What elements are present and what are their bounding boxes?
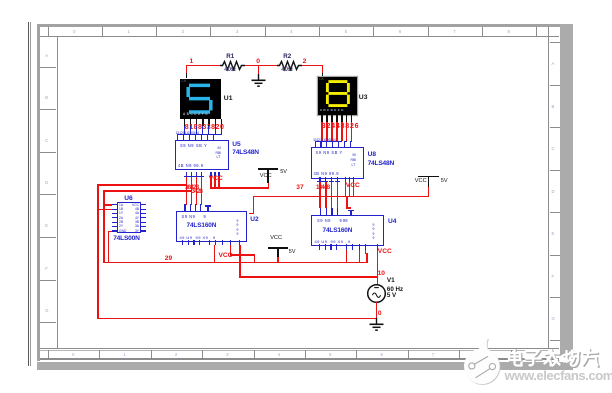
pin U2 top (200, 204, 201, 211)
wire U5 RBI drop (214, 176, 215, 188)
wire jog U5-U2 (200, 204, 202, 205)
pin U5 aux (218, 172, 219, 177)
pin U2 top (190, 204, 191, 211)
wire jog to U4 pin9 (346, 207, 351, 208)
pin U1 seg1 (184, 119, 186, 127)
power VCC symbol right (418, 176, 439, 178)
U2 top internal labels A-D (182, 214, 196, 219)
net label 2 (303, 58, 307, 65)
pin U3 top stub (322, 73, 323, 77)
label U5 (232, 141, 240, 148)
wire U8 aux drop (353, 182, 355, 196)
label R1 (226, 53, 234, 60)
pin U5 out2 (191, 172, 192, 177)
wire U5 LT drop (210, 176, 211, 188)
pin U6 left5 (112, 222, 117, 223)
pin U4 bottom (336, 244, 337, 249)
pin U6 right6 (141, 226, 146, 227)
wire U1 top drop red (186, 65, 188, 74)
pin U2 top (195, 204, 196, 211)
net label VCC red at U4 (378, 248, 392, 255)
U4 top internal labels (317, 218, 331, 223)
pin U8 out (331, 177, 332, 182)
text 5V right (441, 178, 448, 184)
net numbers under U5 row1 (185, 184, 198, 191)
net numbers under U5 row2 (192, 188, 203, 195)
value 5 V (387, 292, 396, 299)
pin U4 bottom (365, 244, 366, 249)
pin U5 aux (214, 172, 215, 177)
wire U2 VCCpin to bus (214, 245, 216, 263)
wires U3 to U8 (321, 122, 323, 142)
watermark logo circle (460, 332, 612, 393)
wire U4 CLK to V1 (377, 250, 379, 285)
wire clock bus net10 (239, 276, 378, 278)
U2 top internal label CLR (204, 214, 206, 219)
U5 label LT (217, 155, 221, 159)
text 5V middle (289, 249, 296, 255)
net label 29 (165, 255, 172, 262)
pin U2 bottom (215, 240, 216, 245)
label U2 (250, 216, 258, 223)
pin U5 out1 (186, 172, 187, 177)
net label 1 (190, 58, 194, 65)
wire jog U5-U2 (190, 204, 193, 205)
label U4 (388, 218, 396, 225)
pin U8 aux (345, 177, 346, 182)
wire U4 pin jog drop (365, 250, 367, 255)
pin U2 bottom (239, 240, 240, 245)
net label 10 (378, 270, 385, 277)
pin U4 bottom (352, 244, 353, 249)
pin U6 left6 (112, 226, 117, 227)
U8 bottom internal labels (314, 171, 339, 176)
pin U2 bottom (209, 240, 210, 245)
pin U5 out4 (201, 172, 202, 177)
wire U3 top drop red (322, 65, 324, 74)
U8 top internal labels (316, 150, 343, 155)
wire net0 left of ground (243, 65, 279, 67)
IC U6 74LS00N (117, 202, 141, 233)
wire U2 pin drop (230, 245, 232, 255)
wire U2 RCO stub (249, 213, 255, 215)
U8 label LT (352, 163, 356, 167)
wire V1 bottom to ground bus (376, 302, 378, 318)
wire jog to U6 pin2 (97, 209, 112, 210)
wire net37 vertical (253, 196, 255, 215)
pin U4 bottom (346, 244, 347, 249)
U4 top internal label2 (340, 218, 348, 223)
value R1 40ohm (224, 67, 235, 73)
U8 top pin numbers blue (313, 138, 335, 142)
wire U4 pin to bus a (346, 250, 348, 263)
pin U3 seg1 (321, 115, 323, 122)
wire U8 to U4 vertical (325, 182, 327, 208)
pin U2 bottom (188, 240, 189, 245)
pin U2 bottom (230, 240, 231, 245)
pin U4 bottom (330, 244, 331, 249)
U5 label RBI (216, 151, 222, 155)
power VCC symbol left (258, 168, 278, 170)
U3 pin letters (320, 108, 344, 112)
wire U8 to U4 vertical (337, 182, 339, 208)
text VCC right (415, 178, 427, 184)
left window border lines (28, 22, 29, 366)
net label VCC red at U8 (346, 182, 360, 189)
pin U4 bottom (319, 244, 320, 249)
watermark text dianzifashaoyou (503, 349, 612, 372)
pin U6 right4 (141, 217, 146, 218)
ground symbol top (250, 74, 267, 89)
pin U4 top5 (350, 210, 351, 215)
pin U8 aux (353, 177, 354, 182)
wire left bus outer vertical (97, 184, 99, 318)
wires U1 to U5 jogs (184, 126, 185, 134)
pin U4 top (320, 208, 321, 215)
IC U8 74LS48N (311, 147, 364, 179)
pin U2 bottom (199, 240, 200, 245)
label 74LS00N (113, 235, 139, 242)
wire jog U5-U2 (195, 204, 198, 205)
pin U6 left4 (112, 217, 117, 218)
net numbers under U8 (316, 184, 329, 191)
wire ground bus net0 (97, 318, 377, 320)
pin U1 top stub (186, 73, 187, 78)
wire U8 to U4 vertical (319, 182, 321, 208)
pin U2 bottom (193, 240, 194, 245)
text VCC left (260, 173, 272, 179)
wire U2 CLK to net10 (239, 245, 241, 278)
pin U2 bottom (222, 240, 223, 245)
pin U6 right5 (141, 222, 146, 223)
AC source V1 (366, 283, 387, 304)
wire U4 jog to bus (366, 253, 368, 263)
wire U5 BI drop (218, 176, 219, 188)
pin U8 aux (349, 177, 350, 182)
wire U8 aux drop (345, 182, 347, 196)
7-segment display U1 (180, 79, 221, 119)
wire tee to U6 lower (103, 190, 192, 192)
net label VCC red at U5 (209, 175, 223, 182)
U3 pin numbers red (322, 123, 360, 130)
text VCC middle (270, 235, 282, 241)
wire net37 to U4 pin9 (346, 196, 348, 209)
U5 top internal labels (180, 143, 207, 148)
pin U4 top (337, 208, 338, 215)
pin U4 bottom (377, 244, 378, 249)
wire U5.4 to U2 (201, 177, 203, 205)
pin U5 aux (210, 172, 211, 177)
wire jog to U6 pin7 (108, 231, 113, 232)
U5 label BI (218, 146, 221, 150)
pin U6 left3 (112, 213, 117, 214)
U1 digit 5 (segments a f g c d) (184, 82, 216, 116)
pin U6 left1 (112, 204, 117, 205)
pin U4 top (331, 208, 332, 215)
wire U8 to U4 vertical (331, 182, 333, 208)
wire U5.1 to U2 (186, 177, 188, 205)
IC U5 74LS48N (175, 140, 229, 170)
pin U8 out (325, 177, 326, 182)
U4 part number (323, 227, 353, 234)
value 60 Hz (387, 286, 403, 293)
label U3 (359, 94, 368, 101)
label V1 (387, 277, 395, 284)
wire U2 jog horizontal (230, 254, 255, 256)
IC U4 74LS160N (311, 215, 384, 246)
wire U4 pin to bus b (359, 250, 361, 263)
wire U2 jog to bus (254, 254, 256, 262)
net label 0 bottom (378, 310, 382, 317)
ground symbol bottom (368, 318, 385, 333)
wire left bus inner vertical (103, 190, 105, 262)
pin U4 bottom (325, 244, 326, 249)
pin U6 right7 (141, 230, 146, 231)
net label 0 (256, 58, 260, 65)
pin U1 seg4 (202, 119, 204, 127)
pin U3 seg5 (341, 115, 343, 122)
U1 pin numbers red (185, 124, 225, 131)
U3 label CK (319, 77, 324, 81)
label U1 (224, 95, 233, 102)
pin U6 right3 (141, 213, 146, 214)
wire net0 to U3 (299, 65, 323, 67)
pin U6 left7 (112, 230, 117, 231)
text 5V left (280, 169, 287, 175)
wire VCC mid stub (277, 257, 279, 263)
pin U8 out (319, 177, 320, 182)
pin U3 seg6 (346, 115, 348, 122)
7-segment display U3 (318, 77, 357, 116)
label R2 (283, 53, 291, 60)
U8 label BI (353, 153, 356, 157)
U4 bottom internal labels (315, 239, 351, 244)
wire U4 jog horizontal (365, 253, 368, 255)
U1 label CK (182, 79, 187, 83)
wire VCC bus net29 (103, 262, 367, 264)
pin U2 top5 (207, 205, 208, 210)
resistor R1 (220, 59, 245, 72)
U1 pin letters (183, 112, 208, 116)
pin U3 seg2 (326, 115, 328, 122)
label U8 (368, 151, 376, 158)
label U6 (124, 195, 132, 202)
pin U1 seg7 (221, 119, 223, 127)
pin U3 seg4 (336, 115, 338, 122)
wire U8 aux drop (349, 182, 351, 196)
wire U5.3 to U2 (196, 177, 198, 205)
pin U5 out3 (196, 172, 197, 177)
U2 bottom internal labels (180, 235, 216, 240)
wire VCC stub red (268, 183, 270, 189)
pin U6 right1 (141, 204, 146, 205)
pin U8 out (337, 177, 338, 182)
pin U6 right2 (141, 209, 146, 210)
wire ground drop red (258, 65, 260, 75)
label 74LS48N right (368, 160, 394, 167)
wire U6 pin7 down (108, 231, 110, 263)
value R2 40ohm (281, 67, 292, 73)
wire net1 horizontal (186, 65, 222, 67)
pin U3 seg7 (351, 115, 353, 122)
pin U4 bottom (359, 244, 360, 249)
wire U5.2 to U2 (191, 177, 193, 205)
IC U2 74LS160N (176, 211, 248, 242)
wire jog to U6 pin1 (103, 204, 112, 205)
pin U2 top (184, 204, 185, 211)
resistor R2 (277, 59, 302, 72)
U3 digit 8 (all segments) (324, 79, 352, 109)
U6 internal pin names (119, 203, 126, 234)
pin U4 top (326, 208, 327, 215)
pin U1 seg2 (190, 119, 192, 127)
U8 label RBI (351, 158, 357, 162)
U5 bottom internal labels (178, 163, 203, 168)
watermark url www.elecfans.com (505, 368, 612, 383)
wire net37/VCC horizontal (253, 196, 429, 198)
wire VCC right stub (428, 187, 430, 197)
pin U1 seg3 (196, 119, 198, 127)
U2 part number (187, 222, 217, 229)
pin U3 seg3 (331, 115, 333, 122)
wire U5 aux to VCC (210, 187, 269, 189)
pin U2 bottom (182, 240, 183, 245)
pin U1 seg6 (215, 119, 217, 127)
wire tee to U6 upper (97, 184, 187, 186)
net label 37 (296, 184, 303, 191)
pin U1 seg5 (208, 119, 210, 127)
label 74LS48N (232, 149, 258, 156)
U5 top pin numbers blue (176, 131, 199, 135)
net label VCC red at U2 (219, 252, 233, 259)
wire jog U5-U2 (184, 204, 187, 205)
pin U6 left2 (112, 209, 117, 210)
